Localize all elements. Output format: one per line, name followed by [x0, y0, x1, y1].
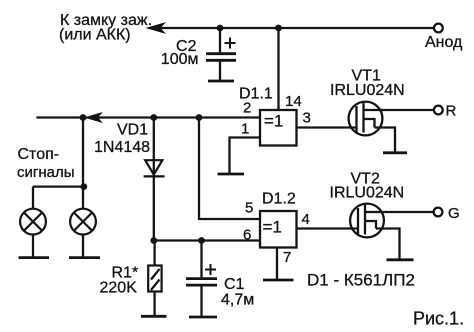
- node junction bottom bus / C1: [198, 237, 205, 244]
- svg-text:C1: C1: [224, 276, 245, 293]
- node junction bottom bus / VD1-R1: [150, 237, 157, 244]
- wire R1 leads: [153, 241, 155, 266]
- svg-text:Стоп-: Стоп-: [18, 146, 60, 163]
- svg-text:220K: 220K: [100, 280, 138, 297]
- svg-text:100м: 100м: [161, 51, 199, 68]
- node junction lamps tee: [80, 183, 87, 190]
- wire stop-signal bus (pin 2 net): [36, 116, 260, 118]
- node junction top rail / pin14: [275, 25, 282, 32]
- wire pin 3 to VT1 gate: [297, 126, 357, 128]
- capacitor C2: [206, 54, 236, 61]
- wire VT2 source to ground: [376, 229, 400, 259]
- ground (VT2 source): [387, 258, 414, 261]
- wire lamps branch vertical: [82, 118, 84, 187]
- svg-text:D1.2: D1.2: [262, 191, 296, 208]
- wire lamp 1 leads: [32, 187, 34, 210]
- svg-text:14: 14: [285, 93, 302, 110]
- lamp HL1: [20, 209, 46, 235]
- wire C1 leads: [200, 241, 202, 278]
- capacitor C1: [186, 279, 217, 286]
- transistor VT2 (IRLU024N MOSFET): [350, 204, 384, 238]
- svg-text:4,7м: 4,7м: [221, 292, 254, 309]
- diode VD1: [144, 160, 165, 176]
- ground (lamp HL2): [69, 256, 100, 259]
- resistor R1: [148, 266, 161, 292]
- wire pin 4 to VT2 gate: [297, 227, 359, 229]
- wire bottom bus (pin 6 net): [154, 239, 260, 241]
- svg-text:IRLU024N: IRLU024N: [330, 185, 405, 202]
- svg-text:Рис.1.: Рис.1.: [413, 309, 464, 329]
- arrow to ignition lock (left end of top rail): [148, 24, 163, 33]
- svg-text:VD1: VD1: [117, 122, 148, 139]
- wire VT2 drain to G terminal: [365, 211, 434, 213]
- ground (C1): [189, 316, 217, 319]
- svg-text:5: 5: [245, 200, 253, 217]
- wire lamp 2 leads: [82, 187, 84, 210]
- lamp HL2: [70, 209, 96, 235]
- wire pin 14 vertical: [277, 28, 279, 110]
- wire VT1 drain to R terminal: [364, 109, 434, 111]
- ground (pin 7): [263, 279, 294, 282]
- svg-text:=1: =1: [264, 112, 283, 131]
- wire pin 5 branch: [199, 118, 260, 220]
- wire C2 leads: [219, 28, 221, 52]
- svg-text:4: 4: [302, 211, 310, 228]
- wire pin 7 to ground: [276, 248, 278, 280]
- ground (pin 1): [218, 173, 245, 176]
- op-amp U1a: XOR gate D1.1: [260, 110, 297, 146]
- wire VT1 source to ground: [375, 128, 396, 153]
- node junction top rail / C2: [217, 25, 224, 32]
- svg-text:=1: =1: [263, 218, 282, 237]
- wire top supply rail: [150, 27, 434, 29]
- node terminal Anode: [434, 24, 443, 33]
- node junction stop bus / pin5: [196, 114, 203, 121]
- svg-text:3: 3: [303, 110, 311, 127]
- svg-text:7: 7: [283, 249, 291, 266]
- op-amp U1b: XOR gate D1.2: [260, 211, 297, 248]
- ground (VT1 source): [383, 151, 407, 154]
- arrow to stop lamps: [87, 113, 101, 121]
- node junction stop bus / lamps: [80, 114, 87, 121]
- svg-text:1N4148: 1N4148: [94, 139, 150, 156]
- wire pin 1 to ground: [230, 138, 261, 174]
- svg-text:Анод: Анод: [425, 34, 463, 51]
- node terminal G: [434, 208, 443, 217]
- svg-text:2: 2: [243, 100, 251, 117]
- svg-text:6: 6: [243, 227, 251, 244]
- wire VD1 branch vertical: [153, 118, 155, 241]
- ground (R1): [141, 315, 167, 318]
- svg-text:(или АКК): (или АКК): [59, 27, 131, 44]
- wire lamps horizontal: [33, 185, 84, 187]
- svg-text:1: 1: [241, 121, 249, 138]
- svg-text:D1 - К561ЛП2: D1 - К561ЛП2: [307, 271, 415, 290]
- svg-text:R: R: [446, 103, 457, 120]
- node junction stop bus / VD1: [150, 114, 157, 121]
- svg-text:сигналы: сигналы: [17, 164, 75, 181]
- ground (lamp HL1): [19, 256, 50, 259]
- ground (C2): [208, 80, 234, 83]
- transistor VT1 (IRLU024N MOSFET): [349, 102, 383, 136]
- node terminal R: [434, 106, 443, 115]
- svg-text:G: G: [448, 205, 460, 222]
- svg-text:IRLU024N: IRLU024N: [330, 82, 405, 99]
